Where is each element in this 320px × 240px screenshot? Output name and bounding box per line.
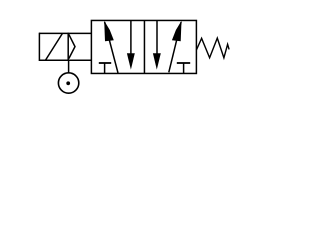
- solenoid box left edge: [38, 33, 40, 61]
- flow arrow A2 head: [127, 53, 135, 69]
- solenoid box right edge: [67, 33, 69, 61]
- flow arrow B2 head: [172, 21, 182, 42]
- flow arrow B1 head: [153, 53, 161, 69]
- return spring zigzag: [196, 38, 229, 58]
- closed port T symbol (right box) bar: [177, 62, 190, 64]
- closed port T symbol (left box) stem: [104, 63, 106, 73]
- flow arrow A2 down line (left box): [130, 21, 132, 58]
- valve body outer rectangle: [91, 20, 196, 73]
- solenoid box bottom edge / connector to valve: [39, 59, 91, 61]
- flow arrow B1 down line (right box): [156, 21, 158, 58]
- flow arrow A1 diagonal line (left box): [105, 22, 118, 73]
- closed port T symbol (left box) bar: [99, 62, 111, 64]
- solenoid box top edge / connector to valve: [39, 32, 91, 34]
- indicator stem wire: [68, 60, 70, 73]
- pilot chevron: [69, 34, 75, 58]
- flow arrow B2 diagonal line (right box): [169, 22, 181, 72]
- valve position divider: [143, 20, 145, 73]
- solenoid diagonal stroke: [46, 34, 63, 60]
- indicator circle: [58, 73, 78, 93]
- closed port T symbol (right box) stem: [183, 63, 185, 73]
- flow arrow A1 head: [104, 21, 114, 42]
- indicator centre dot: [66, 81, 70, 85]
